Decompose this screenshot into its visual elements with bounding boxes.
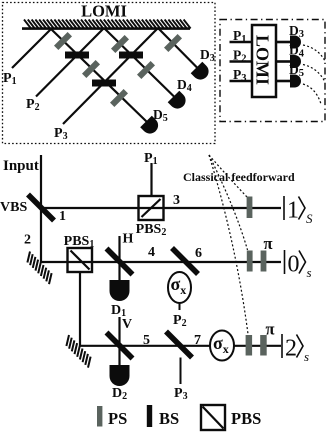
svg-text:6: 6	[195, 246, 202, 261]
svg-text:2: 2	[24, 233, 31, 248]
svg-text:π: π	[266, 320, 275, 339]
svg-text:4: 4	[148, 245, 155, 260]
svg-text:0: 0	[288, 252, 300, 278]
svg-text:7: 7	[194, 333, 201, 348]
svg-text:BS: BS	[159, 409, 179, 428]
svg-text:Input: Input	[3, 158, 39, 174]
svg-text:Classical feedforward: Classical feedforward	[183, 170, 295, 184]
svg-text:s: s	[307, 265, 312, 280]
svg-text:1: 1	[287, 198, 299, 224]
svg-text:5: 5	[143, 333, 150, 348]
svg-text:PS: PS	[108, 409, 127, 428]
svg-text:1: 1	[59, 209, 66, 224]
svg-text:LOMI: LOMI	[81, 2, 127, 21]
svg-text:LOMI: LOMI	[253, 35, 273, 85]
svg-text:s: s	[304, 349, 309, 364]
svg-text:V: V	[122, 317, 132, 332]
svg-text:VBS: VBS	[0, 200, 27, 215]
svg-text:S: S	[306, 211, 313, 226]
svg-text:π: π	[264, 234, 273, 253]
svg-text:2: 2	[285, 336, 297, 362]
svg-text:PBS: PBS	[231, 409, 261, 428]
svg-text:H: H	[123, 232, 134, 247]
svg-text:3: 3	[173, 193, 180, 208]
